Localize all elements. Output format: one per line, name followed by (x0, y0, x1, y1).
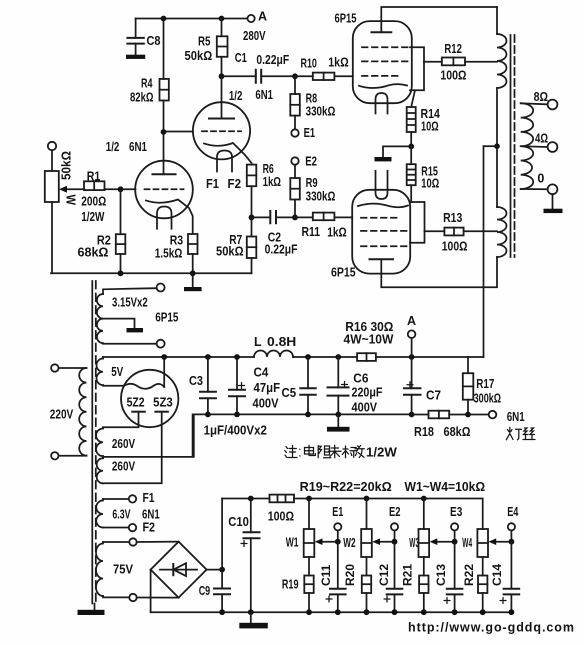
terminal 3.15V bottom (157, 340, 165, 348)
terminal 220V top (51, 364, 58, 371)
svg-text:1μF/400Vx2: 1μF/400Vx2 (204, 423, 267, 438)
svg-text:W1~W4=10kΩ: W1~W4=10kΩ (405, 480, 486, 494)
power transformer core dashed (92, 281, 96, 604)
terminal 8Q (534, 90, 558, 110)
svg-text:W: W (64, 195, 78, 206)
svg-text:100Ω: 100Ω (268, 510, 294, 524)
svg-text:F1: F1 (143, 491, 155, 505)
svg-text:C10: C10 (228, 515, 249, 529)
svg-text:F1: F1 (206, 177, 219, 191)
svg-text:75V: 75V (113, 563, 134, 577)
grids V4 dashed (361, 218, 409, 246)
capacitor C7 (404, 357, 441, 415)
choke L 0.8H (254, 335, 296, 357)
screen bracket V4 (410, 202, 425, 243)
resistor R5 50kQ (185, 19, 228, 77)
svg-text:R17: R17 (476, 377, 494, 391)
resistor R12 100Q (424, 42, 497, 82)
svg-text:C5: C5 (282, 386, 297, 400)
svg-text:10Ω: 10Ω (421, 120, 439, 134)
cathode V1 (146, 200, 193, 234)
svg-text:E4: E4 (507, 505, 518, 519)
wiper W1 (315, 538, 338, 545)
svg-text:1.5kΩ: 1.5kΩ (155, 247, 183, 261)
svg-text:6N1: 6N1 (507, 410, 525, 424)
node C9 bottom (219, 609, 225, 615)
cathode V2 (204, 143, 252, 163)
ground C8 (126, 55, 145, 59)
svg-text:0.22μF: 0.22μF (256, 53, 289, 67)
svg-text:R5: R5 (198, 35, 211, 49)
output transformer primary winding (497, 7, 507, 257)
svg-text:R12: R12 (444, 42, 462, 56)
node C3 bottom (205, 412, 211, 418)
svg-text:5Z3: 5Z3 (153, 396, 173, 410)
svg-text:50kΩ: 50kΩ (185, 49, 213, 63)
node C10 top (248, 496, 254, 502)
note resistors 1/2W chinese (285, 445, 397, 459)
svg-text:http://www.go-gddq.com: http://www.go-gddq.com (408, 621, 574, 635)
node E2 wiper (392, 539, 398, 545)
svg-text:1kΩ: 1kΩ (263, 175, 281, 189)
svg-text:E3: E3 (450, 505, 462, 519)
svg-text:220V: 220V (50, 408, 74, 422)
output transformer core (511, 35, 515, 257)
node C14 bottom (509, 609, 515, 615)
winding 6.3V (96, 499, 131, 528)
svg-text:400V: 400V (352, 401, 378, 415)
node R22 bottom (480, 609, 486, 615)
potentiometer W4 (462, 529, 488, 576)
svg-text:F2: F2 (143, 521, 156, 535)
node R4 bottom plate V1 grid V2 (161, 129, 167, 135)
svg-text:W2: W2 (343, 536, 355, 550)
grids V3 dashed (362, 47, 410, 76)
svg-text:68kΩ: 68kΩ (444, 425, 471, 439)
terminal 220V bottom (51, 452, 58, 459)
capacitor C8 (127, 19, 160, 55)
terminal F2 6N1 (129, 521, 155, 535)
plate V1 (153, 132, 176, 174)
svg-text:1/2W: 1/2W (81, 210, 104, 224)
resistor R2 68kQ (78, 189, 126, 273)
bridge rectifier (151, 542, 207, 598)
svg-text:A: A (258, 10, 267, 24)
node grid V1 (118, 186, 124, 192)
svg-text:R9: R9 (306, 176, 318, 190)
node OPT center tap B+ (484, 143, 500, 149)
svg-text:200Ω: 200Ω (81, 195, 106, 209)
svg-text:6N1: 6N1 (255, 88, 273, 102)
svg-text:280V: 280V (243, 29, 266, 43)
svg-text:A: A (407, 314, 416, 328)
pentode V3 6P15 upper (335, 12, 412, 104)
svg-text:E2: E2 (305, 155, 317, 169)
node C7 bottom (409, 412, 415, 418)
capacitor C6 220uF 400V (328, 357, 383, 415)
svg-text:1/2: 1/2 (106, 140, 120, 154)
terminal E1 (291, 126, 315, 140)
resistor R1 200Q 1/2W (81, 170, 120, 225)
node R2 bottom (118, 270, 124, 276)
node R3 bottom (190, 270, 196, 276)
svg-text:4W~10W: 4W~10W (344, 333, 394, 347)
svg-text:6N1: 6N1 (142, 508, 160, 522)
ground first stage (184, 273, 202, 291)
svg-text:100Ω: 100Ω (442, 240, 468, 254)
ground 3.15V center tap (103, 319, 143, 333)
filament V2 (206, 151, 241, 192)
potentiometer W1 (286, 499, 315, 576)
capacitor C11 (319, 542, 346, 613)
svg-text:C3: C3 (189, 374, 203, 388)
svg-text:R3: R3 (170, 234, 183, 248)
resistor R6 1kQ (247, 162, 281, 218)
svg-text:R13: R13 (443, 211, 462, 225)
svg-text:C9: C9 (199, 584, 211, 598)
label heater chinese (506, 427, 535, 440)
node C4 top (234, 354, 240, 360)
resistor R20 (343, 564, 371, 613)
svg-text:F2: F2 (228, 177, 242, 191)
capacitor C2 0.22uF (252, 211, 298, 257)
wiper W3 (430, 538, 455, 545)
node C13 bottom (452, 609, 458, 615)
svg-text:50kΩ: 50kΩ (216, 245, 244, 259)
potentiometer W3 (409, 499, 429, 576)
svg-text:6P15: 6P15 (331, 266, 356, 280)
terminal E1 bias (332, 505, 343, 542)
svg-text:260V: 260V (112, 460, 136, 474)
svg-text:1/2W: 1/2W (366, 446, 397, 460)
plate 5Z3 (103, 412, 168, 484)
svg-text:W1: W1 (286, 536, 299, 550)
wire bias top rail (222, 499, 483, 530)
wire bridge negative to rail (150, 570, 152, 613)
node C6 top (335, 354, 341, 360)
filament V3 (376, 93, 388, 114)
wire B+ front-end top rail (136, 18, 248, 20)
svg-text:E1: E1 (332, 505, 343, 519)
svg-text:R10: R10 (301, 56, 317, 70)
wiper W4 (489, 538, 512, 545)
plate 5Z2 (103, 412, 145, 428)
svg-text:C7: C7 (426, 389, 441, 403)
resistor R13 100Q (425, 211, 498, 253)
winding 75V (96, 542, 134, 597)
capacitor C1 0.22uF (222, 51, 296, 83)
resistor R17 300kQ (463, 357, 501, 415)
svg-text:E1: E1 (304, 126, 316, 140)
winding 260V lower (97, 456, 136, 483)
svg-text:0.22μF: 0.22μF (265, 243, 298, 257)
resistor R8 330kQ (290, 76, 335, 129)
svg-text:1kΩ: 1kΩ (328, 55, 349, 69)
resistor R14 10Q (407, 107, 440, 146)
terminal 3.15V top (157, 284, 165, 292)
svg-text:R18: R18 (414, 425, 434, 439)
terminal E4 bias (507, 505, 518, 542)
filament rectifier (124, 357, 164, 389)
terminal 75V top (129, 538, 136, 545)
svg-text:C12: C12 (377, 564, 391, 586)
svg-text:W3: W3 (409, 536, 419, 550)
terminal A psu (407, 314, 416, 357)
capacitor C9 (199, 584, 230, 612)
node C5 bottom (305, 412, 311, 418)
ground transformer frame (78, 604, 105, 616)
winding 220V primary (50, 368, 87, 456)
output transformer secondary (521, 103, 548, 189)
ground output cathodes (375, 146, 412, 161)
svg-text:R6: R6 (263, 162, 274, 176)
svg-text:4Ω: 4Ω (535, 132, 548, 146)
svg-text:R19: R19 (282, 577, 299, 591)
svg-text:C8: C8 (147, 34, 161, 48)
node E3 wiper (452, 539, 458, 545)
node C12 bottom (392, 609, 398, 615)
terminal 6N1 heater bias (489, 410, 525, 424)
svg-text:E2: E2 (389, 505, 401, 519)
svg-text:C13: C13 (434, 564, 448, 586)
potentiometer W2 (343, 499, 372, 576)
plate V3 and top wire (372, 7, 498, 32)
svg-text:C1: C1 (235, 51, 247, 65)
terminal E2 (291, 155, 317, 169)
node R6 C2 R7 (249, 215, 255, 221)
svg-text:W4: W4 (462, 536, 472, 550)
resistor R19 (282, 576, 314, 613)
svg-text:C6: C6 (353, 372, 368, 386)
wire 75V to bridge ac (137, 542, 179, 598)
resistor R4 82kQ (130, 19, 169, 133)
node C3 top (205, 354, 211, 360)
winding 260V upper (96, 427, 136, 456)
svg-text:260V: 260V (112, 437, 136, 451)
node C10 bottom (248, 609, 254, 615)
node R19 bottom (306, 609, 312, 615)
plate V2 (209, 76, 234, 118)
svg-text:0: 0 (537, 172, 544, 186)
grid V1 (121, 188, 184, 190)
screen bracket V3 (410, 47, 424, 90)
winding 5V (96, 357, 124, 386)
node C1 R10 R8 (292, 73, 298, 79)
node R20 bottom (364, 609, 370, 615)
wiper arrow pot (59, 186, 84, 193)
svg-text:R20: R20 (343, 564, 357, 586)
svg-text:R1: R1 (87, 170, 101, 184)
svg-text:1kΩ: 1kΩ (327, 225, 347, 239)
svg-text:6P15: 6P15 (335, 12, 357, 26)
svg-text:1/2: 1/2 (229, 89, 243, 103)
resistor R11 1kQ (295, 213, 352, 240)
wiper W2 (372, 538, 394, 545)
svg-text:R8: R8 (306, 91, 318, 105)
capacitor C12 (377, 542, 402, 613)
resistor R18 68kQ (412, 411, 471, 439)
terminal F1 6N1 (129, 491, 155, 505)
svg-text:R22: R22 (462, 564, 476, 586)
capacitor C13 (434, 542, 462, 613)
plate V4 (370, 257, 498, 287)
cathode V3 (359, 84, 415, 107)
svg-text:L: L (254, 335, 262, 349)
wire psu ground bus (194, 414, 412, 457)
ground speaker (544, 194, 563, 213)
svg-text:C11: C11 (319, 564, 333, 586)
resistor R15 10Q (407, 146, 439, 202)
node cathode R14 R15 (408, 144, 414, 150)
node R5 top (219, 16, 225, 22)
svg-text:300kΩ: 300kΩ (474, 392, 502, 406)
node plate junction V2 (219, 73, 225, 79)
resistor R16 30Q 4W-10W (344, 320, 394, 361)
terminal 0 (537, 172, 557, 195)
svg-text:400V: 400V (253, 397, 280, 411)
node C11 bottom (335, 609, 341, 615)
svg-text:3.15Vx2: 3.15Vx2 (112, 296, 148, 310)
svg-text:R19~R22=20kΩ: R19~R22=20kΩ (300, 480, 392, 494)
svg-text:68kΩ: 68kΩ (78, 246, 109, 260)
node C4 bottom (234, 412, 240, 418)
svg-text:50kΩ: 50kΩ (60, 151, 74, 180)
wire B+ rail (103, 356, 484, 358)
node C5 top (305, 354, 311, 360)
svg-text:10Ω: 10Ω (421, 177, 439, 191)
node C6 bottom (335, 412, 341, 418)
capacitor C14 (490, 542, 519, 613)
node R17 R18 heater (465, 412, 489, 418)
resistor R10 1kQ (295, 55, 353, 80)
svg-text:6.3V: 6.3V (112, 508, 131, 522)
svg-text:6N1: 6N1 (129, 140, 147, 154)
resistor 100Q bias (268, 495, 294, 524)
svg-text:6P15: 6P15 (155, 311, 178, 325)
filament V4 (376, 171, 388, 199)
triode V1 1/2 6N1 (106, 140, 193, 218)
filament V1 (157, 207, 172, 229)
node C7 top A (409, 354, 415, 360)
potentiometer 50kQ volume (45, 142, 78, 273)
node W1 top (306, 496, 312, 502)
svg-text:C14: C14 (490, 564, 504, 586)
svg-text:220μF: 220μF (352, 386, 383, 400)
capacitor C10 (228, 499, 259, 613)
rectifier 5Z2 5Z3 (121, 370, 178, 427)
node W2 top (364, 496, 370, 502)
svg-text:R11: R11 (302, 225, 321, 239)
cathode V4 (358, 204, 408, 208)
pentode V4 6P15 lower (331, 190, 410, 280)
wire cathode ground bus (51, 272, 252, 274)
wire bias bottom rail (151, 611, 512, 613)
node E1 wiper (335, 539, 341, 545)
resistor R9 330kQ (290, 166, 335, 218)
wire B+ feed line (483, 146, 485, 357)
node W3 top (421, 496, 427, 502)
node R4 top (161, 16, 167, 22)
capacitor C4 47uF 400V (229, 357, 280, 414)
wire bridge positive (207, 499, 225, 589)
resistor R3 1.5kQ (155, 234, 198, 274)
resistor R7 50kQ (216, 217, 256, 273)
svg-text:R21: R21 (401, 564, 415, 586)
capacitor C5 (282, 357, 316, 414)
node E4 wiper (509, 539, 515, 545)
svg-text:82kΩ: 82kΩ (130, 91, 154, 105)
svg-text:5Z2: 5Z2 (127, 396, 145, 410)
node C2 R9 R11 (292, 215, 298, 221)
svg-text:R4: R4 (141, 77, 153, 91)
svg-text:0.8H: 0.8H (267, 335, 296, 349)
terminal E3 bias (450, 505, 462, 542)
ground bias supply (239, 612, 267, 628)
winding 3.15Vx2 (97, 288, 157, 344)
svg-text:5V: 5V (111, 365, 124, 379)
terminal 4Q (535, 132, 557, 152)
svg-text:100Ω: 100Ω (440, 69, 466, 83)
terminal 75V bottom (129, 594, 136, 601)
wire HT center tap to ground bus (103, 414, 193, 457)
resistor R21 (401, 564, 429, 613)
capacitor C3 (189, 357, 216, 414)
svg-text:330kΩ: 330kΩ (306, 105, 336, 119)
svg-text:8Ω: 8Ω (534, 90, 549, 104)
ground psu main (327, 414, 350, 431)
terminal E2 bias (389, 505, 401, 542)
resistor R22 (462, 564, 487, 613)
grid V2 (164, 130, 242, 132)
svg-text:47μF: 47μF (254, 381, 281, 395)
triode V2 1/2 6N1 (193, 88, 273, 160)
node rectifier cathode rail (161, 354, 167, 360)
svg-text:C4: C4 (254, 366, 269, 380)
terminal A 280V (243, 10, 267, 43)
svg-text:330kΩ: 330kΩ (306, 190, 336, 204)
node R21 bottom (421, 609, 427, 615)
